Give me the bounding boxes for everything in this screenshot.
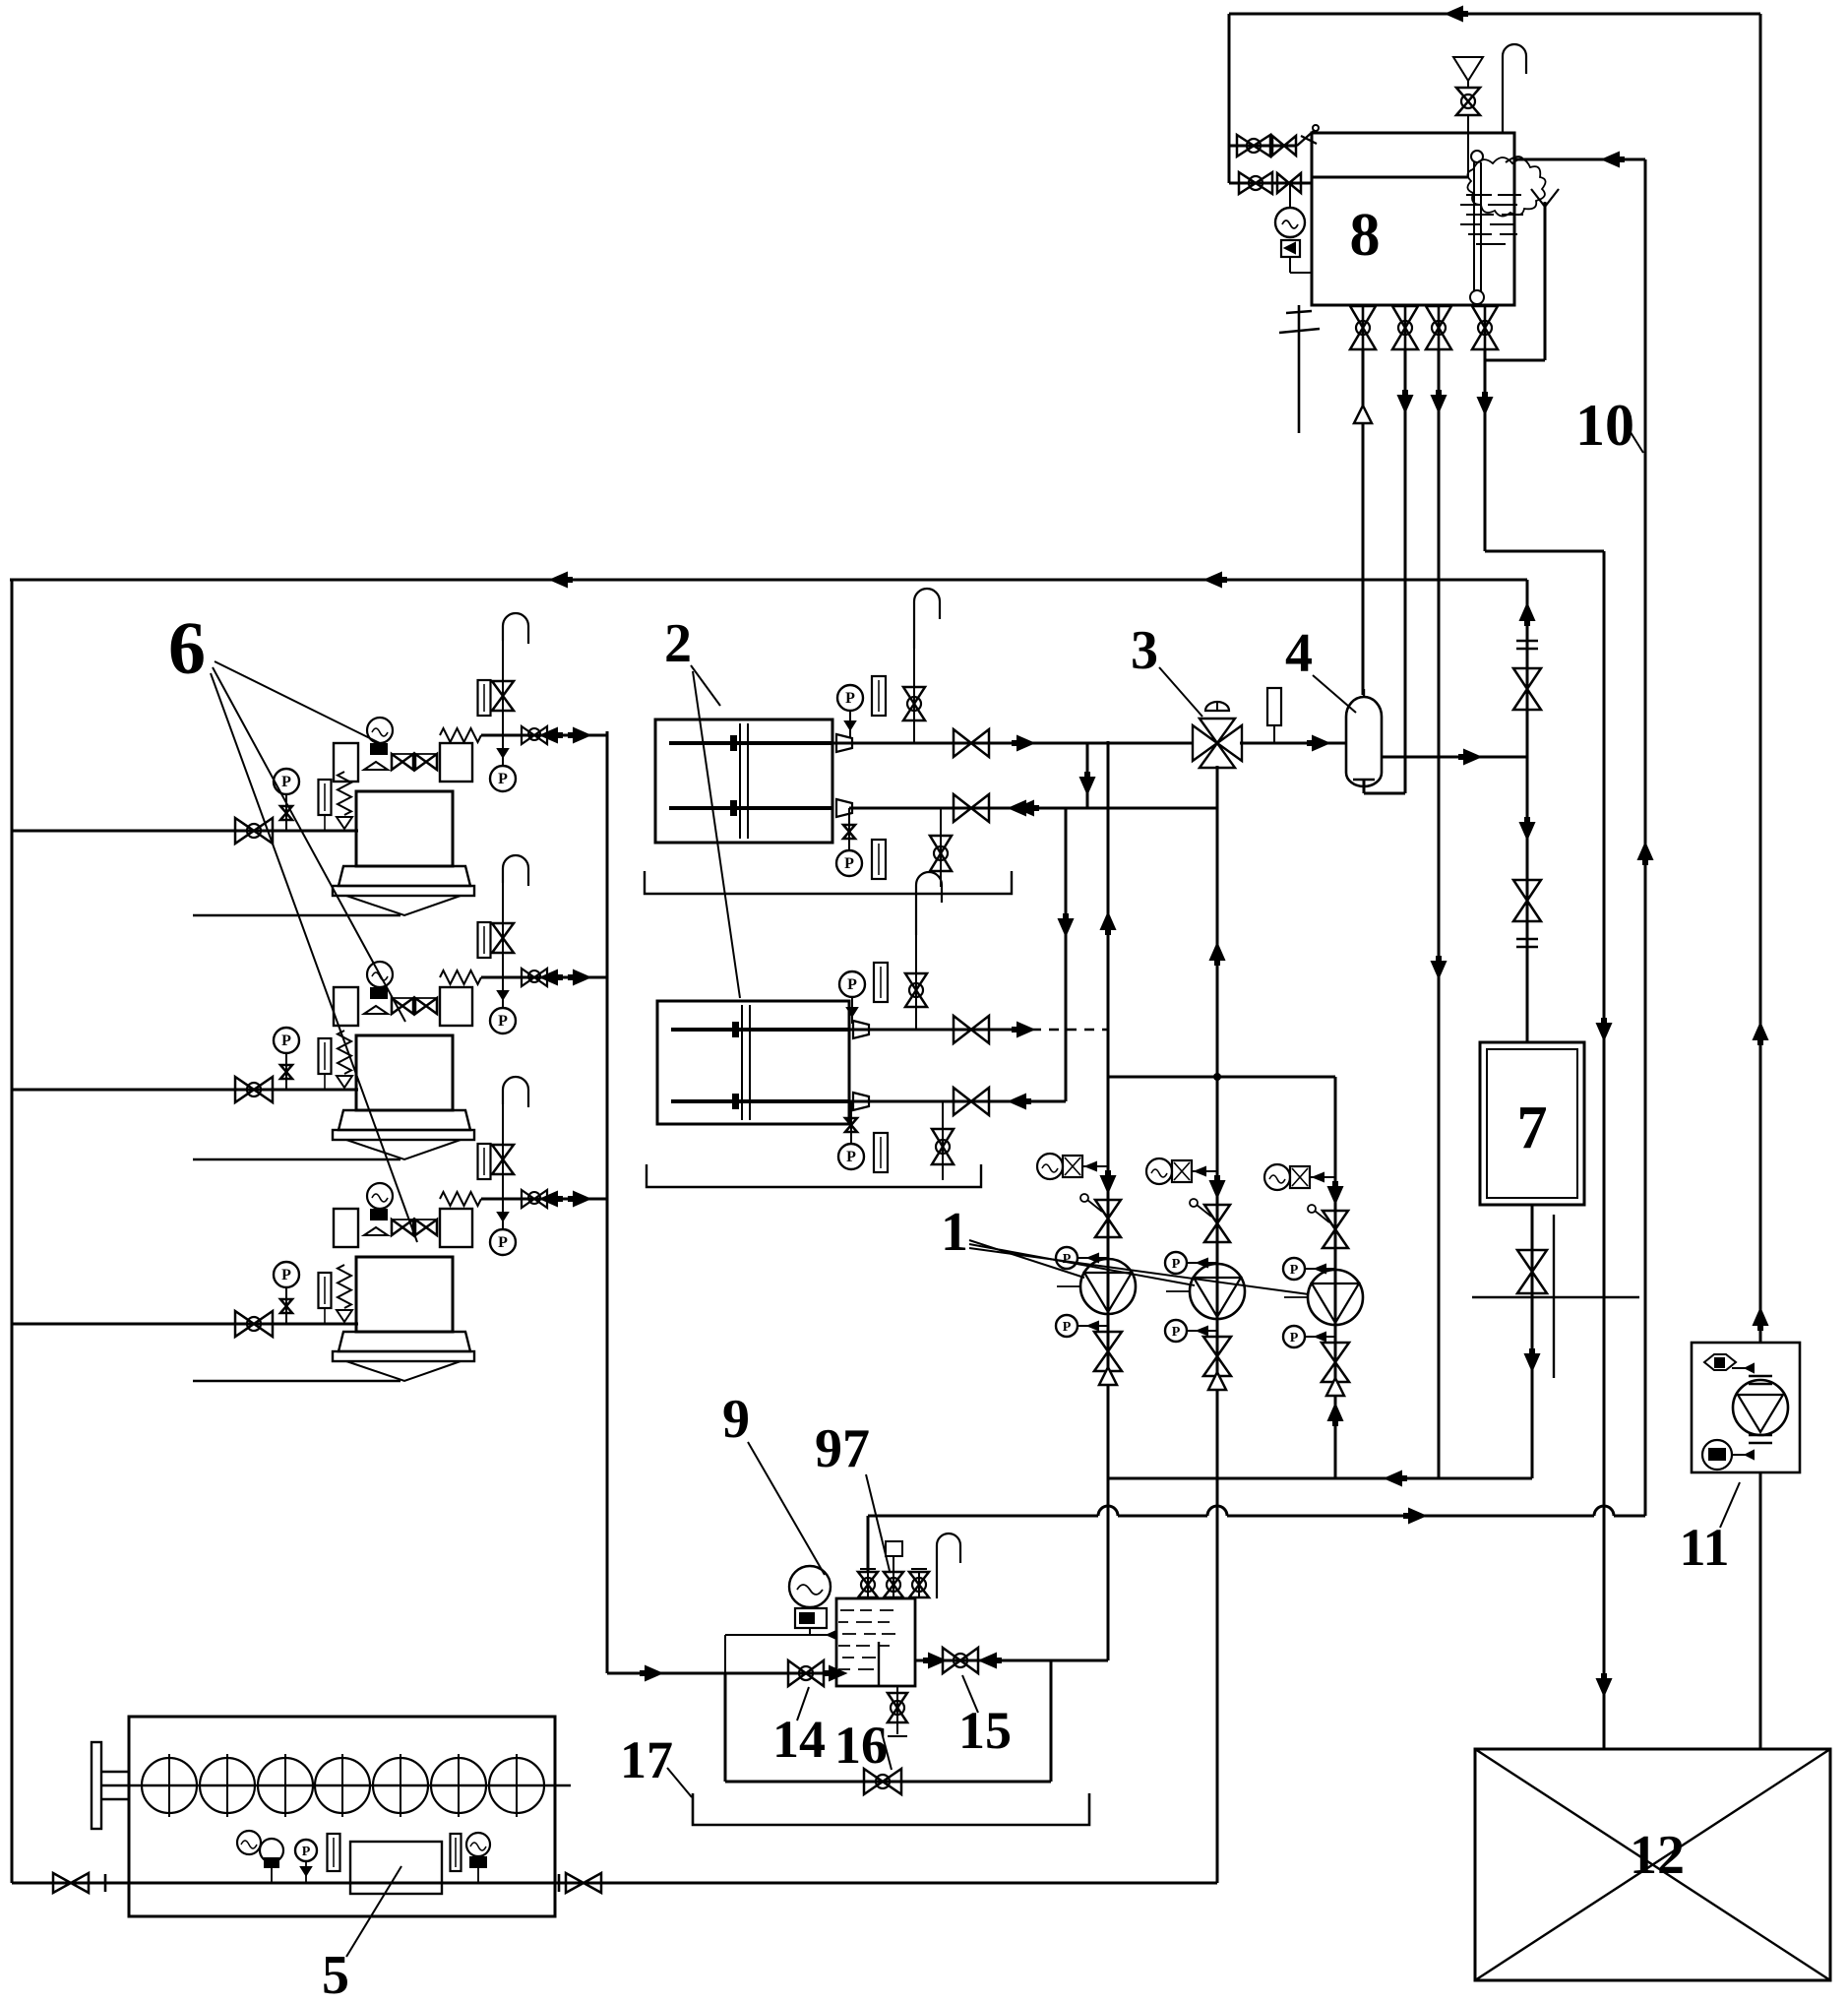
wire separator feed line y=755 (filter A upper outlet) — [832, 742, 1193, 745]
svg-text:2: 2 — [664, 613, 692, 674]
wire filter cross-tie x=1105 — [1080, 743, 1094, 808]
filter upper outlet nozzle — [853, 1021, 869, 1038]
wire line 10 riser x=1672 — [1638, 159, 1652, 1516]
machine pedestal — [333, 866, 474, 915]
filter lower outlet nozzle — [836, 799, 852, 817]
filter upper outlet valve — [954, 1016, 1033, 1043]
label 5 with pointer — [322, 1866, 401, 2003]
svg-text:P: P — [302, 1845, 311, 1859]
tank 9 top valve 3 — [909, 1569, 929, 1598]
svg-text:17: 17 — [620, 1730, 673, 1789]
pump upper gauge — [1165, 1252, 1217, 1274]
tank 9 shell with liquid hatch — [836, 1598, 915, 1686]
wire right riser x=1789 (to condenser 12) — [1754, 14, 1767, 1749]
machine body — [356, 1257, 453, 1332]
label 16 with pointer — [834, 1716, 892, 1775]
machine outlet check valve — [481, 1190, 607, 1208]
svg-text:10: 10 — [1575, 393, 1634, 458]
machine inlet flow glass — [319, 780, 332, 831]
insulation cross under cooler 7 — [1472, 1215, 1639, 1378]
tank 8 bottom valve 2 — [1392, 305, 1418, 349]
machine outlet check valve — [481, 969, 607, 986]
wire bottom line y=1913 — [12, 1882, 1217, 1885]
filter vent valve and gooseneck — [903, 589, 940, 743]
pump casing — [1166, 1264, 1245, 1319]
machine top right box — [440, 1209, 472, 1247]
filter lower outlet valve — [954, 794, 1031, 822]
machine 6 inlet line — [12, 830, 358, 833]
machine floor line — [193, 1158, 400, 1160]
filter lower drain valve — [932, 1101, 954, 1180]
label 17 with pointer — [620, 1730, 692, 1797]
pump upper gauge — [1056, 1247, 1108, 1269]
label 15 with pointer — [958, 1675, 1012, 1760]
filter lower drain valve — [930, 808, 952, 887]
tank 8 drain with breaks — [1279, 305, 1320, 433]
label 11 with pointer — [1679, 1482, 1740, 1577]
machine pedestal — [333, 1332, 474, 1381]
svg-text:16: 16 — [834, 1716, 888, 1775]
machine outlet flow arrows — [541, 970, 589, 984]
machine inlet spring loader — [337, 1031, 352, 1088]
svg-text:7: 7 — [1517, 1095, 1548, 1161]
label 3 with pointer — [1131, 620, 1202, 717]
machine outlet pressure gauge — [490, 735, 516, 791]
machine outlet check valve — [481, 726, 607, 744]
bracket 17 — [693, 1793, 1089, 1825]
valve under cooler 7 — [1517, 1250, 1547, 1293]
svg-text:P: P — [1063, 1252, 1072, 1267]
vessel 5 shaft and flange — [92, 1742, 571, 1829]
wire separator 4 inlet y=755 — [1240, 736, 1346, 750]
machine body — [356, 1035, 453, 1110]
pump suction valve — [1203, 1337, 1231, 1376]
machine outlet tee riser with valve and glass — [478, 641, 515, 735]
machine top right box — [440, 987, 472, 1026]
pump upper gauge — [1283, 1258, 1335, 1280]
machine top left box — [334, 1209, 358, 1247]
machine inlet flow glass — [319, 1038, 332, 1090]
machine inlet flow glass — [319, 1273, 332, 1324]
tank 8 thermowell — [1470, 151, 1484, 304]
machine top valves — [364, 1220, 437, 1235]
label 2 with pointers — [664, 613, 740, 998]
pump suction arrow — [1208, 1372, 1226, 1390]
svg-text:8: 8 — [1350, 202, 1381, 269]
machine top valves — [364, 998, 437, 1014]
tank 8 bottom valve 1 — [1350, 305, 1376, 349]
wire filter B lower tie riser x=1083 — [1059, 808, 1073, 1101]
filter upper outlet nozzle — [836, 734, 852, 752]
label 14 with pointer — [772, 1687, 826, 1769]
tank 8 label — [1350, 202, 1381, 269]
svg-text:P: P — [498, 1234, 508, 1251]
wire feed riser to cooler 7 x=1552 — [1520, 580, 1534, 1042]
wire tank8 valve line 3 x=1462 — [1432, 349, 1446, 1478]
machine floor line — [193, 1380, 400, 1382]
pump unit 11 box — [1692, 1343, 1800, 1472]
pump top angle valve — [1080, 1194, 1121, 1237]
machine outlet flow arrows — [541, 1192, 589, 1206]
level alarm LAL on tank 8 — [1275, 183, 1312, 273]
line B hop over pump2 column — [1207, 1506, 1227, 1525]
pump lower gauge — [1283, 1326, 1335, 1347]
condenser 12 cross — [1475, 1749, 1830, 1980]
pump discharge arrow — [1210, 1175, 1224, 1197]
svg-text:11: 11 — [1679, 1518, 1729, 1577]
wire big loop left edge x=12 — [11, 580, 14, 1883]
machine body — [356, 791, 453, 866]
flange pair on riser x=1552 — [1516, 641, 1538, 947]
machine outlet pressure gauge — [490, 977, 516, 1033]
wire top return header y=14 — [1229, 7, 1760, 21]
line B hop over condenser drop — [1594, 1506, 1614, 1525]
vent V symbol on coil return — [1531, 189, 1559, 207]
machine outlet flow arrows — [541, 728, 589, 742]
cooler 7 label — [1517, 1095, 1548, 1161]
pump top angle valve — [1190, 1199, 1230, 1242]
wire filter B lower outlet line y=1119 — [849, 1100, 1066, 1103]
pump 1 motor instruments — [1037, 1154, 1108, 1179]
svg-text:P: P — [281, 1267, 291, 1283]
filter 2 box — [655, 720, 832, 843]
tank 9 vent gooseneck — [937, 1534, 960, 1598]
svg-text:P: P — [845, 690, 855, 707]
pump lower gauge — [1056, 1315, 1108, 1337]
tank 8 heating coil scribble — [1460, 157, 1546, 244]
machine outlet spring — [440, 970, 481, 984]
pump casing — [1057, 1259, 1136, 1314]
svg-text:P: P — [844, 855, 854, 872]
machine inlet valve — [235, 818, 273, 844]
wire condenser drop x=1630 — [1597, 551, 1611, 1749]
machine top motor — [367, 1183, 393, 1221]
machine outlet tee riser with valve and glass — [478, 1104, 515, 1199]
filter vent valve and gooseneck — [905, 872, 942, 1030]
machine inlet valve — [235, 1311, 273, 1337]
machine inlet spring loader — [337, 1265, 352, 1322]
filter lower outlet nozzle — [853, 1093, 869, 1110]
filter lower gauge group — [836, 808, 886, 879]
svg-text:12: 12 — [1630, 1825, 1685, 1886]
label 10 with pointer — [1575, 393, 1643, 458]
svg-text:4: 4 — [1285, 623, 1313, 684]
tank 8 bottom valve 3 — [1426, 305, 1451, 349]
pump 11 upper instrument — [1704, 1354, 1754, 1372]
tank 8 vent gooseneck — [1503, 44, 1526, 133]
machine inlet pressure gauge — [274, 769, 299, 831]
machine outlet tee riser with valve and glass — [478, 883, 515, 977]
svg-text:P: P — [1063, 1320, 1072, 1335]
tank 9 drain valve — [888, 1686, 907, 1736]
fill valve under funnel — [1456, 88, 1480, 115]
machine inlet pressure gauge — [274, 1028, 299, 1090]
filter element lower — [669, 800, 832, 816]
wire tank8 valve line 2 x=1428 — [1364, 349, 1412, 793]
filter drip tray bracket — [647, 1164, 981, 1187]
label 6 with pointers — [168, 607, 417, 1242]
wire separator 4 outlet y=769 — [1382, 750, 1527, 764]
vessel 5 inner box — [350, 1842, 442, 1894]
machine top motor — [367, 718, 393, 755]
cooler 7 box — [1480, 1042, 1584, 1205]
machine top motor — [367, 962, 393, 999]
wire tank8 valve line 4 x=1509 — [1478, 349, 1492, 551]
wire filter B upper dashed tie y=1046 — [1031, 1029, 1108, 1032]
wire coil to outlet — [1506, 156, 1523, 162]
tank 9 top valve 2 (97) — [884, 1541, 903, 1598]
wire branch y=560 to condenser drop — [1485, 550, 1604, 553]
wire pump 1 column x=1126 — [1101, 741, 1115, 1660]
wire main suction header y=589 — [10, 573, 1527, 587]
wire tank8 feed drop x=1249 — [1228, 14, 1231, 183]
machine floor line — [193, 914, 400, 916]
machine top right box — [440, 743, 472, 782]
svg-text:97: 97 — [815, 1418, 870, 1479]
machine outlet spring — [440, 728, 481, 742]
line B hop over pump1 column — [1098, 1506, 1118, 1525]
filter upper gauge group — [837, 676, 886, 737]
machine vent gooseneck — [503, 613, 528, 644]
filter upper gauge group — [839, 963, 888, 1024]
tank 8 inlet valve pair upper — [1229, 125, 1319, 156]
wire pump discharge header y=1094 — [1108, 1073, 1335, 1081]
wire tank 9 bypass loop — [725, 1660, 1051, 1782]
machine top left box — [334, 743, 358, 782]
wire vapour line B y=1540 from tank 9 — [868, 1509, 1645, 1571]
filter 2 box — [657, 1001, 849, 1124]
pump lower gauge — [1165, 1320, 1217, 1342]
tank 8 shell — [1312, 133, 1514, 305]
svg-text:1: 1 — [941, 1202, 968, 1263]
pump 11 circle — [1733, 1376, 1788, 1443]
condenser 12 box — [1475, 1749, 1830, 1980]
valve 16 on bypass loop — [864, 1769, 901, 1794]
condenser 12 label — [1630, 1825, 1685, 1886]
filter upper outlet valve — [954, 729, 1033, 757]
pump 1 motor instruments — [1264, 1164, 1335, 1190]
valve 14 on tank 9 inlet — [788, 1660, 824, 1686]
filter element lower — [671, 1094, 849, 1109]
wire heater outlet line y=162 with line 10 — [1515, 153, 1645, 166]
svg-text:9: 9 — [722, 1389, 750, 1450]
svg-text:3: 3 — [1131, 620, 1158, 681]
pump 11 lower instrument — [1702, 1440, 1754, 1470]
machine outlet spring — [440, 1192, 481, 1206]
valve 15 on tank 9 outlet — [943, 1648, 1002, 1673]
wire tank 9 inlet line y=1700 — [607, 1666, 845, 1680]
svg-text:P: P — [281, 774, 291, 790]
tank 8 inlet valve pair lower — [1229, 172, 1312, 194]
svg-text:P: P — [1290, 1263, 1299, 1278]
wire cooler 7 outlet drop x=1557 — [1525, 1205, 1539, 1478]
svg-text:P: P — [498, 1013, 508, 1030]
vessel 5 outlet valve — [559, 1873, 601, 1893]
filter drip tray bracket — [645, 871, 1012, 894]
pump suction valve — [1094, 1332, 1122, 1371]
pump suction arrow — [1326, 1378, 1344, 1396]
vessel 5 instruments — [237, 1831, 490, 1883]
valve on riser lower — [1513, 880, 1541, 921]
machine inlet valve — [235, 1077, 273, 1102]
flow glass after valve 3 — [1267, 688, 1281, 743]
wire tank 9 outlet line y=1687 — [915, 1654, 1108, 1667]
tank 9 level controller — [725, 1566, 836, 1673]
label 4 with pointer — [1285, 623, 1356, 713]
machine inlet pressure gauge — [274, 1262, 299, 1324]
pump suction arrow — [1099, 1367, 1117, 1385]
svg-text:P: P — [1172, 1257, 1181, 1272]
pump suction valve — [1322, 1343, 1349, 1382]
wire valve3/pump2 column x=1237 — [1210, 766, 1224, 1883]
label 9 with pointer — [722, 1389, 825, 1575]
machine pedestal — [333, 1110, 474, 1159]
tank 8 funnel fill — [1453, 57, 1483, 177]
machine 6 inlet line — [12, 1323, 358, 1326]
svg-text:P: P — [846, 1149, 856, 1165]
three-way valve 3 — [1193, 702, 1242, 768]
wire filter A lower line y=821 — [849, 801, 1216, 815]
svg-text:P: P — [281, 1033, 291, 1049]
separator 4 vessel — [1346, 689, 1382, 786]
wire coil return branch y=366 — [1485, 202, 1545, 360]
pump discharge arrow — [1101, 1170, 1115, 1192]
pump casing — [1284, 1270, 1363, 1325]
svg-text:P: P — [1290, 1331, 1299, 1346]
machine vent gooseneck — [503, 855, 528, 886]
svg-text:14: 14 — [772, 1710, 826, 1769]
svg-text:5: 5 — [322, 1945, 349, 2003]
vessel 5 inlet valve — [53, 1873, 105, 1893]
machine inlet spring loader — [337, 772, 352, 829]
vessel 5 rotor circles — [142, 1754, 544, 1817]
wire machine outlet manifold x=617 — [606, 731, 609, 1673]
machine outlet pressure gauge — [490, 1199, 516, 1255]
pump top angle valve — [1308, 1205, 1348, 1248]
svg-text:15: 15 — [958, 1701, 1012, 1760]
filter lower outlet valve — [954, 1088, 1031, 1115]
svg-text:P: P — [1172, 1325, 1181, 1340]
tank 8 bottom valve 4 — [1472, 305, 1498, 349]
tank 9 top valve 1 — [858, 1569, 878, 1598]
svg-text:P: P — [847, 976, 857, 993]
svg-text:P: P — [498, 771, 508, 787]
machine top valves — [364, 754, 437, 770]
wire pump 3 column x=1357 — [1328, 1077, 1342, 1478]
wire filter B upper outlet line y=1046 — [849, 1029, 1026, 1032]
valve on riser upper — [1513, 668, 1541, 710]
pump discharge arrow — [1328, 1181, 1342, 1203]
machine 6 inlet line — [12, 1089, 358, 1092]
machine vent gooseneck — [503, 1077, 528, 1107]
label 97 with pointer — [815, 1418, 890, 1571]
wire pump suction line A y=1502 — [1108, 1471, 1532, 1485]
label 1 with pointers — [941, 1202, 1309, 1294]
wire tank8 valve line 1 x=1385 — [1354, 349, 1372, 695]
filter element upper — [669, 723, 832, 839]
machine top left box — [334, 987, 358, 1026]
svg-text:6: 6 — [168, 607, 206, 690]
filter element upper — [671, 1005, 849, 1120]
vessel 5 box — [129, 1717, 555, 1916]
pump 1 motor instruments — [1146, 1158, 1217, 1184]
filter lower gauge group — [838, 1101, 888, 1172]
